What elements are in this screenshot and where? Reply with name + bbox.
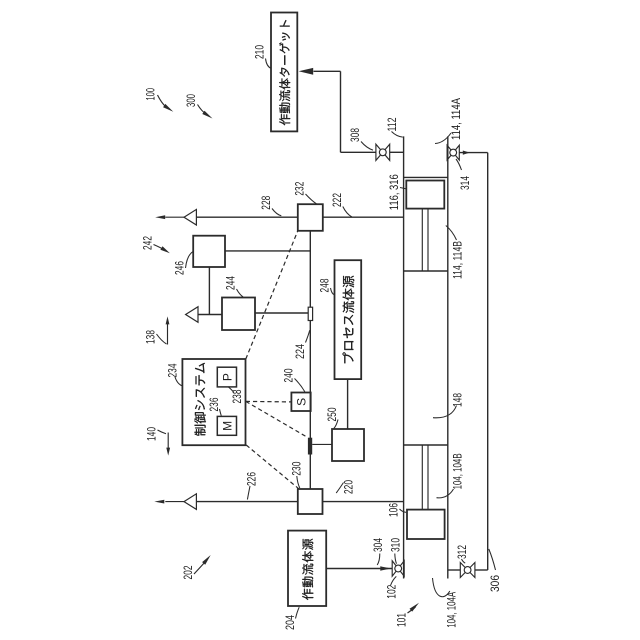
svg-text:232: 232: [294, 182, 307, 196]
svg-text:102: 102: [385, 585, 398, 599]
svg-text:100: 100: [145, 88, 158, 101]
svg-text:220: 220: [342, 480, 355, 494]
svg-text:306: 306: [489, 575, 502, 592]
svg-text:106: 106: [388, 503, 401, 517]
svg-text:230: 230: [290, 462, 303, 476]
svg-text:140: 140: [146, 427, 159, 441]
svg-text:224: 224: [294, 344, 307, 359]
svg-text:202: 202: [182, 566, 195, 580]
svg-text:244: 244: [224, 276, 237, 290]
svg-text:114, 114A: 114, 114A: [450, 98, 463, 140]
svg-text:228: 228: [260, 196, 273, 210]
svg-text:234: 234: [167, 363, 180, 377]
svg-text:104, 104B: 104, 104B: [452, 453, 465, 489]
svg-text:312: 312: [456, 545, 469, 559]
svg-text:112: 112: [386, 118, 399, 132]
svg-text:P: P: [220, 373, 234, 381]
svg-text:300: 300: [185, 94, 198, 107]
svg-text:304: 304: [372, 538, 385, 552]
svg-text:250: 250: [326, 408, 339, 422]
svg-text:236: 236: [208, 398, 221, 412]
svg-text:116, 316: 116, 316: [388, 174, 401, 210]
svg-text:104, 104A: 104, 104A: [446, 592, 459, 628]
svg-text:204: 204: [284, 615, 297, 630]
svg-text:138: 138: [144, 330, 157, 344]
svg-text:148: 148: [452, 393, 465, 407]
svg-text:314: 314: [459, 176, 472, 190]
svg-text:248: 248: [319, 279, 332, 293]
svg-text:M: M: [220, 421, 234, 431]
svg-text:242: 242: [142, 236, 155, 250]
svg-text:308: 308: [349, 128, 362, 142]
svg-text:240: 240: [282, 369, 295, 383]
svg-text:222: 222: [331, 193, 344, 207]
svg-text:310: 310: [390, 538, 403, 552]
svg-text:226: 226: [246, 472, 259, 486]
svg-text:101: 101: [396, 613, 409, 627]
svg-text:246: 246: [174, 261, 187, 275]
svg-text:114, 114B: 114, 114B: [451, 241, 464, 279]
svg-text:S: S: [295, 398, 309, 406]
svg-text:210: 210: [253, 45, 266, 59]
